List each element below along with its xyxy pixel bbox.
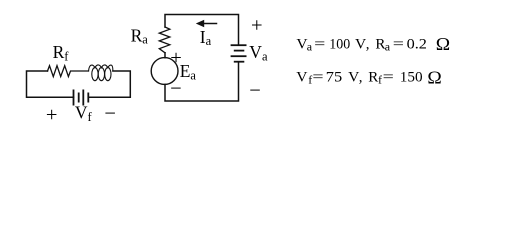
svg-text:Ea: Ea bbox=[180, 61, 197, 82]
svg-text:Vf: Vf bbox=[75, 102, 93, 124]
svg-text:=: = bbox=[383, 70, 394, 86]
svg-text:100: 100 bbox=[329, 36, 350, 52]
svg-text:V: V bbox=[355, 36, 366, 52]
svg-text:−: − bbox=[170, 78, 182, 100]
svg-text:,: , bbox=[366, 36, 370, 52]
svg-text:+: + bbox=[170, 47, 182, 69]
svg-text:=: = bbox=[312, 70, 323, 86]
svg-text:150: 150 bbox=[400, 70, 423, 86]
svg-text:Va: Va bbox=[249, 42, 268, 63]
svg-text:Ω: Ω bbox=[427, 68, 441, 88]
svg-text:75: 75 bbox=[326, 70, 342, 86]
svg-text:0.2: 0.2 bbox=[407, 36, 427, 52]
svg-text:=: = bbox=[314, 36, 325, 52]
svg-text:f: f bbox=[378, 73, 382, 87]
svg-text:a: a bbox=[385, 39, 391, 53]
svg-text:Rf: Rf bbox=[53, 42, 70, 63]
svg-text:+: + bbox=[46, 104, 58, 126]
svg-text:V: V bbox=[296, 70, 307, 86]
svg-text:R: R bbox=[368, 70, 378, 86]
svg-text:Ra: Ra bbox=[131, 26, 149, 47]
svg-text:−: − bbox=[104, 103, 116, 125]
svg-text:Ia: Ia bbox=[200, 27, 212, 48]
svg-text:+: + bbox=[251, 14, 263, 36]
svg-text:Ω: Ω bbox=[436, 34, 450, 54]
svg-text:−: − bbox=[249, 80, 261, 102]
svg-text:=: = bbox=[393, 36, 404, 52]
svg-text:a: a bbox=[307, 39, 313, 53]
svg-text:,: , bbox=[359, 70, 363, 86]
